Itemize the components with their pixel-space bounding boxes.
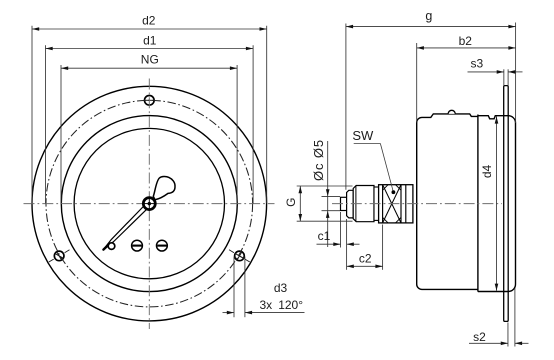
extension line d2 left (31, 26, 33, 204)
outer flange circle (d2) (32, 86, 267, 321)
extension ticks stub diameter (322, 195, 341, 197)
extension line b2 left (416, 43, 418, 123)
dimension line s3 (468, 71, 504, 73)
needle stop pin (108, 243, 115, 250)
arrows side view (346, 25, 353, 29)
centerline dash through top hole (144, 99, 155, 101)
svg-text:d2: d2 (142, 14, 156, 28)
dimension line d2 (32, 28, 267, 30)
extension line d1 right (252, 45, 254, 203)
connection stub (341, 197, 347, 210)
thread section G (353, 186, 374, 222)
extension lines G thread (297, 185, 353, 187)
case back edge (477, 115, 479, 292)
svg-text:g: g (425, 9, 432, 23)
horizontal centerline front view (24, 203, 275, 205)
hex divider lines (382, 185, 384, 223)
SW leader line (354, 144, 394, 193)
svg-text:NG: NG (141, 52, 159, 66)
dimension line d4 (496, 116, 498, 290)
needle counterweight (153, 176, 175, 199)
extension line d1 left (45, 45, 47, 203)
hex X cross (383, 185, 401, 223)
extension line c1 left (340, 212, 342, 248)
centerline cross bottom-left hole (49, 250, 70, 262)
extension lines s3 (503, 69, 505, 85)
bezel inner circle (74, 128, 224, 278)
extension line c1/c2 shared (346, 219, 348, 270)
mounting hole bottom-right (235, 251, 245, 261)
centerline cross bottom-right hole (229, 250, 250, 262)
svg-text:s3: s3 (470, 56, 483, 70)
adjustment screw left (132, 240, 143, 251)
svg-text:b2: b2 (459, 34, 473, 48)
dimension line stub dia (327, 141, 329, 247)
dimension line c1 (317, 243, 341, 245)
needle hub (142, 196, 157, 211)
dimension line c2 (347, 265, 383, 267)
extension lines s2 (507, 323, 509, 347)
svg-text:Øc Ø5: Øc Ø5 (311, 139, 326, 181)
dimension line G (299, 186, 301, 221)
mounting hole top (145, 96, 155, 106)
stem neck (374, 187, 379, 220)
extension line c2 right (382, 225, 384, 270)
adjustment screw right (157, 240, 168, 251)
dimension line NG (61, 67, 237, 69)
needle tip (solid) (103, 245, 108, 250)
extension line d2 right (266, 26, 268, 204)
vertical centerline front view (148, 79, 150, 330)
extension line NG left (60, 65, 62, 204)
hex chamfer marks (383, 185, 389, 191)
extension line d3 hole right tangent (244, 257, 246, 318)
bolt circle d3 (dash-dot) (46, 100, 253, 307)
svg-text:SW: SW (352, 128, 374, 143)
dimension line b2 (417, 47, 516, 49)
dimension line d1 (46, 48, 254, 50)
filling plug dome (448, 110, 455, 114)
svg-text:s2: s2 (473, 330, 486, 344)
arrows front view (32, 27, 39, 31)
mounting hole bottom-left (54, 251, 64, 261)
svg-text:d1: d1 (143, 33, 157, 47)
extension line d3 hole left tangent (233, 257, 235, 318)
svg-text:3x120°: 3x120° (260, 298, 304, 312)
extension line NG right (236, 65, 238, 204)
extension line g left (345, 24, 347, 190)
extension line g/b2 right (515, 23, 517, 124)
bezel ring outline (478, 116, 516, 292)
dimension line d3 (223, 312, 235, 314)
hub centerline cross (144, 203, 155, 205)
svg-text:c1: c1 (318, 229, 331, 243)
dimension line g (346, 26, 516, 28)
svg-text:c2: c2 (359, 251, 372, 265)
svg-text:d4: d4 (480, 165, 494, 179)
svg-text:d3: d3 (274, 281, 288, 295)
hex nut block (379, 185, 413, 223)
svg-text:G: G (284, 198, 298, 207)
case outline (417, 114, 478, 290)
case circle (NG) (61, 116, 237, 292)
dimension line s2 (469, 342, 508, 344)
pointer needle (103, 202, 151, 250)
stem shoulder (347, 190, 354, 218)
front flange plate (504, 86, 509, 322)
horizontal centerline side view (332, 203, 502, 205)
thread chamfer line (355, 186, 357, 222)
